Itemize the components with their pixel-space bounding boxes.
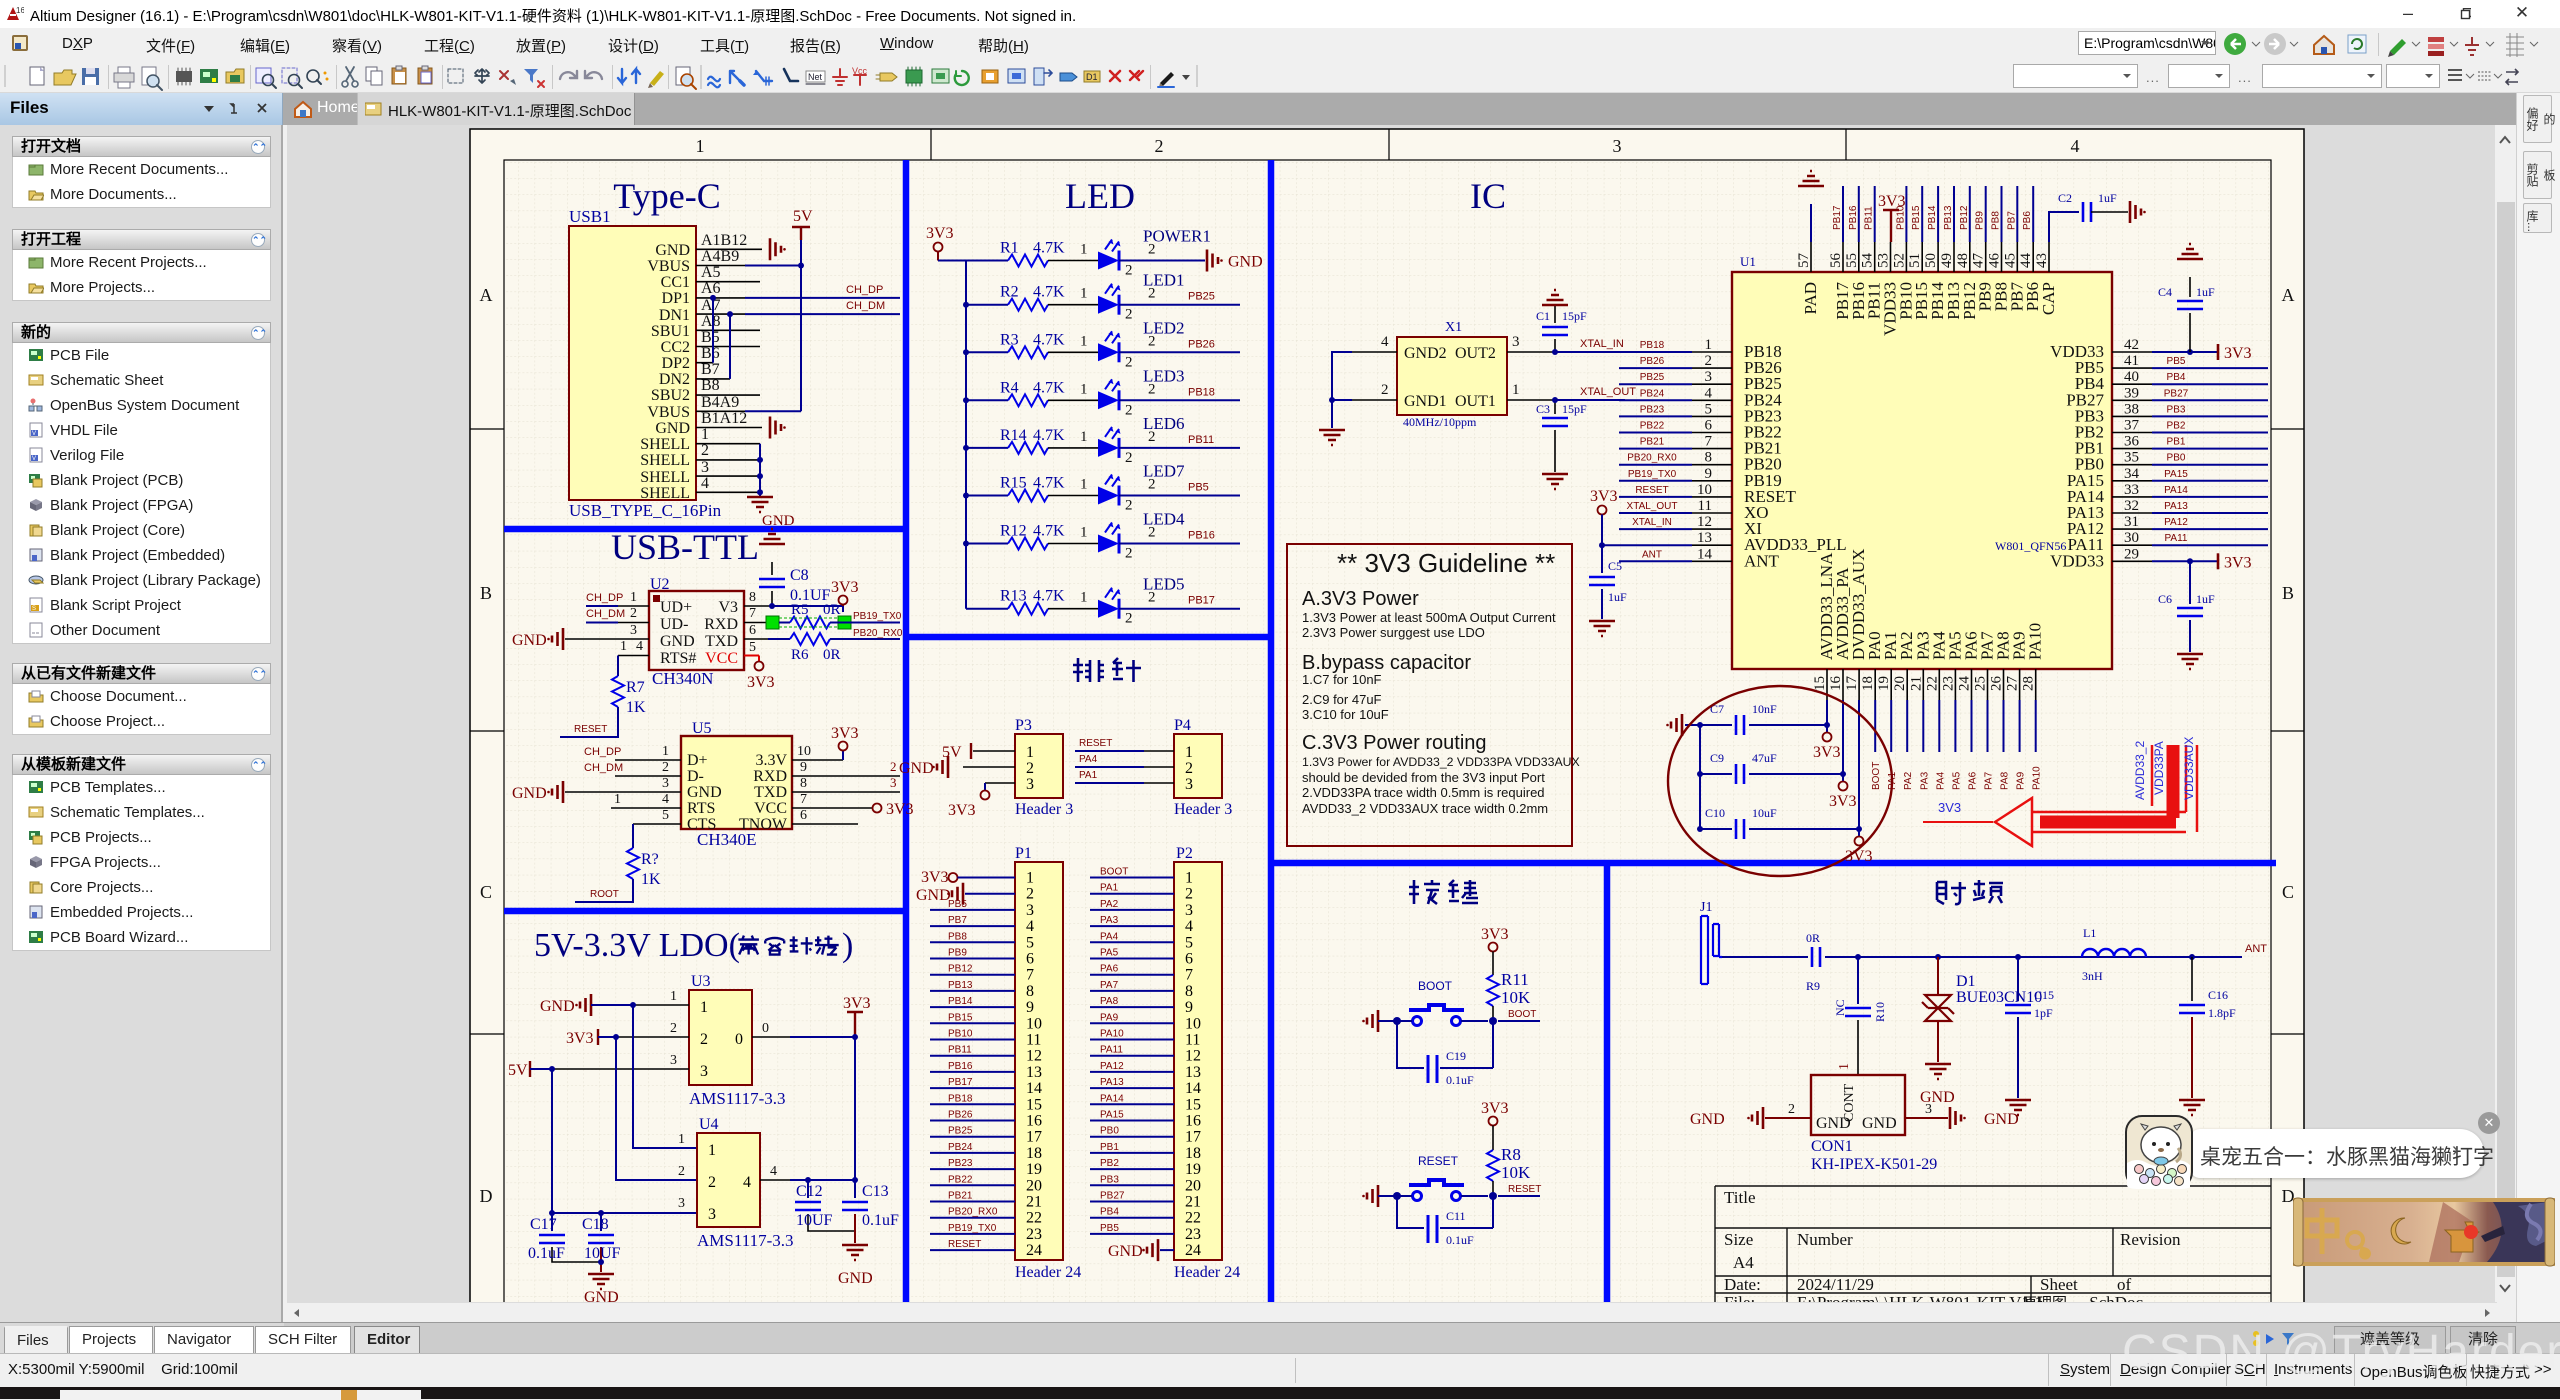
wire XTAL_OUT: [1555, 399, 1625, 401]
svg-text:B6: B6: [701, 345, 720, 362]
svg-text:8: 8: [1185, 983, 1193, 1000]
svg-text:2: 2: [1148, 333, 1156, 349]
wire VDD33 pin29 to 3V3: [2152, 560, 2218, 562]
svg-text:R12: R12: [1000, 523, 1027, 540]
svg-text:9: 9: [800, 760, 807, 775]
svg-text:E:\Program\ \HLK-W801-KIT-V1.1: E:\Program\ \HLK-W801-KIT-V1.1-: [1797, 1293, 2049, 1302]
junction C15: [2015, 954, 2021, 960]
svg-text:PB25: PB25: [948, 1126, 973, 1137]
wire LED to net: [1119, 495, 1240, 497]
thick blue section dividers: [504, 160, 2276, 1309]
svg-text:PB19_TX0: PB19_TX0: [1628, 469, 1677, 480]
svg-text:LED: LED: [1065, 176, 1135, 216]
svg-text:6: 6: [749, 623, 756, 638]
svg-text:12: 12: [1697, 514, 1712, 530]
svg-text:RESET: RESET: [1079, 738, 1112, 749]
svg-text:2: 2: [1125, 546, 1133, 562]
svg-text:17: 17: [1185, 1129, 1201, 1146]
svg-text:): ): [842, 927, 853, 964]
connector CON1 KH-IPEX-K501-29: [1765, 1063, 1948, 1173]
svg-text:0R: 0R: [823, 602, 841, 618]
wire 3V3 vertical bus: [938, 261, 966, 609]
svg-text:PAD: PAD: [1801, 282, 1820, 314]
svg-text:R4: R4: [1000, 379, 1019, 396]
ground earth C8: [759, 529, 785, 544]
svg-text:15: 15: [1185, 1096, 1201, 1113]
ground earth PAD pin57: [1810, 204, 1812, 242]
svg-text:4: 4: [1026, 918, 1034, 935]
svg-text:C15: C15: [2034, 988, 2054, 1002]
wire divider horizontal under USB-TTL: [504, 908, 909, 915]
svg-text:3: 3: [1705, 369, 1713, 385]
svg-text:Revision: Revision: [2120, 1230, 2181, 1249]
svg-text:USB1: USB1: [569, 207, 611, 226]
svg-text:1: 1: [670, 989, 677, 1004]
svg-text:V: V: [32, 431, 36, 437]
svg-text:13: 13: [1026, 1064, 1042, 1081]
power port 5V: [792, 208, 813, 240]
junction C6: [2187, 558, 2193, 564]
svg-text:OUT2: OUT2: [1455, 345, 1496, 362]
annotation red 3V3 routing arrow: [1923, 737, 2197, 846]
D1: [1084, 71, 1100, 82]
svg-text:GND: GND: [1108, 1243, 1143, 1260]
capacitor C15 1pF: [2005, 957, 2054, 1098]
power port 3V3 (RESET pullup): [1481, 1100, 1509, 1126]
svg-text:PA15: PA15: [2164, 469, 2188, 480]
note box 3V3 Guideline: [1287, 544, 1580, 846]
svg-text:49: 49: [1939, 253, 1955, 268]
svg-text:4.7K: 4.7K: [1033, 331, 1065, 348]
svg-text:BOOT: BOOT: [1418, 979, 1453, 993]
capacitor C13 0.1uF: [842, 1180, 899, 1243]
svg-text:S: S: [32, 606, 36, 612]
svg-text:C10: C10: [1705, 806, 1725, 820]
svg-text:UD-: UD-: [660, 616, 688, 633]
svg-text:21: 21: [1908, 676, 1924, 691]
svg-text:13: 13: [1185, 1064, 1201, 1081]
wire U4 out rail: [790, 1037, 855, 1180]
svg-text:SHELL: SHELL: [640, 485, 690, 502]
wire RF main: [1722, 956, 2242, 958]
junction C17 rail: [549, 1210, 555, 1216]
svg-text:3V3: 3V3: [1813, 744, 1841, 761]
svg-text:3V3: 3V3: [948, 802, 976, 819]
svg-text:C19: C19: [1446, 1049, 1466, 1063]
svg-text:7: 7: [1185, 967, 1193, 984]
junction R10: [1855, 954, 1861, 960]
svg-text:3V3: 3V3: [926, 225, 954, 242]
svg-text:PB7: PB7: [948, 915, 967, 926]
svg-text:47uF: 47uF: [1752, 751, 1777, 765]
svg-text:57: 57: [1796, 253, 1812, 269]
svg-text:A6: A6: [701, 280, 721, 297]
svg-text:PA10: PA10: [2026, 623, 2045, 660]
svg-text:PA15: PA15: [1100, 1110, 1124, 1121]
svg-text:PB21: PB21: [1640, 437, 1665, 448]
wire VDD33 pin42 to 3V3: [2152, 351, 2218, 353]
svg-text:1: 1: [708, 1142, 716, 1159]
svg-text:D+: D+: [687, 752, 708, 769]
svg-text:UD+: UD+: [660, 599, 692, 616]
svg-text:1: 1: [1080, 286, 1088, 302]
svg-text:AMS1117-3.3: AMS1117-3.3: [689, 1089, 786, 1108]
svg-text:C9: C9: [1710, 751, 1724, 765]
svg-text:4: 4: [743, 1174, 751, 1191]
svg-text:3nH: 3nH: [2082, 969, 2103, 983]
svg-text:PB14: PB14: [1927, 205, 1938, 230]
ground GND bar (pin B1A12): [770, 417, 786, 439]
svg-text:3: 3: [700, 1063, 708, 1080]
svg-text:L1: L1: [2083, 926, 2096, 940]
connector J1 antenna: [1700, 900, 1722, 984]
svg-text:37: 37: [2124, 418, 2140, 434]
svg-text:GND: GND: [512, 785, 547, 802]
svg-text:10K: 10K: [1501, 1163, 1531, 1182]
svg-text:56: 56: [1828, 253, 1844, 269]
wire divider vertical 3: [1604, 863, 1611, 1309]
LED LED3: [1048, 366, 1185, 418]
svg-text:41: 41: [2124, 353, 2139, 369]
svg-text:GND: GND: [687, 784, 722, 801]
svg-text:USB_TYPE_C_16Pin: USB_TYPE_C_16Pin: [569, 501, 722, 520]
svg-text:23: 23: [1185, 1226, 1201, 1243]
svg-text:C.3V3 Power routing: C.3V3 Power routing: [1302, 732, 1487, 754]
svg-text:PB26: PB26: [1188, 338, 1215, 350]
ground earth C12 C13: [842, 1245, 868, 1260]
switch BOOT: [1409, 979, 1464, 1026]
svg-text:5: 5: [1026, 934, 1034, 951]
svg-text:B: B: [2282, 583, 2294, 603]
svg-text:VCC: VCC: [705, 650, 738, 667]
svg-text:XTAL_IN: XTAL_IN: [1580, 338, 1624, 350]
LED LED1: [1048, 271, 1185, 323]
svg-text:24: 24: [1957, 676, 1973, 692]
IC U1 W801_QFN56: [1732, 254, 2112, 669]
svg-text:3V3: 3V3: [1481, 926, 1509, 943]
LED LED6: [1048, 414, 1185, 466]
svg-text:PB10: PB10: [948, 1029, 973, 1040]
svg-text:1: 1: [1026, 744, 1034, 761]
svg-text:TXD: TXD: [754, 784, 787, 801]
capacitor C2 1uF: [2058, 191, 2128, 222]
svg-text:GND: GND: [838, 1270, 873, 1287]
green ic: [906, 70, 922, 83]
power port 3V3 (U1 pin13): [1590, 488, 1618, 515]
svg-text:J1: J1: [1700, 900, 1712, 915]
capacitor C1 15pF: [1536, 305, 1587, 352]
svg-text:2: 2: [670, 1021, 677, 1036]
ground earth C3: [1542, 474, 1568, 489]
svg-text:47: 47: [1971, 253, 1987, 269]
net label icon: [806, 71, 825, 82]
svg-text:DP2: DP2: [662, 355, 690, 372]
svg-text:PA3: PA3: [1919, 771, 1930, 790]
svg-text:PA14: PA14: [2164, 485, 2188, 496]
svg-text:IC: IC: [1470, 176, 1506, 216]
capacitor C17 0.1uF: [528, 1213, 601, 1262]
svg-text:PB3: PB3: [2167, 404, 2186, 415]
wire divider vertical 1: [903, 160, 910, 1309]
svg-text:PB17: PB17: [1832, 205, 1843, 230]
wire SHELL pins: [759, 444, 761, 497]
svg-text:8: 8: [1705, 450, 1713, 466]
wire 5V down to C17 rail: [552, 1069, 697, 1213]
wire CH_DP U2: [586, 605, 618, 607]
svg-text:PB8: PB8: [948, 931, 967, 942]
svg-text:TNOW: TNOW: [739, 816, 788, 833]
svg-text:3V3: 3V3: [2224, 554, 2252, 571]
svg-text:3V3: 3V3: [566, 1030, 594, 1047]
svg-text:30: 30: [2124, 530, 2139, 546]
component icons: [176, 71, 192, 82]
svg-text:PB11: PB11: [948, 1045, 972, 1056]
svg-text:Type-C: Type-C: [613, 176, 720, 216]
updown / brush: [618, 69, 640, 83]
svg-text:34: 34: [2124, 466, 2140, 482]
svg-text:36: 36: [2124, 434, 2140, 450]
svg-text:21: 21: [1185, 1194, 1201, 1211]
wire divider horizontal under IC: [1268, 860, 2276, 867]
sheet entry: [1034, 68, 1044, 85]
svg-text:SBU1: SBU1: [651, 323, 690, 340]
svg-text:3: 3: [1512, 334, 1520, 350]
svg-text:NC: NC: [1833, 999, 1847, 1016]
svg-text:原理图: 原理图: [2022, 1295, 2067, 1302]
svg-text:PB1: PB1: [2167, 437, 2186, 448]
svg-text:14: 14: [1185, 1080, 1201, 1097]
svg-text:2: 2: [1125, 498, 1133, 514]
svg-text:PB20_RX0: PB20_RX0: [853, 628, 903, 639]
wires U1 top nets: [1843, 186, 2033, 242]
svg-text:R3: R3: [1000, 331, 1019, 348]
resistor R10 NC (cap style): [1833, 957, 1887, 1075]
zoom group: [256, 68, 271, 83]
svg-text:3: 3: [1925, 1102, 1932, 1117]
svg-text:GND: GND: [1690, 1111, 1725, 1128]
ground earth C6: [2177, 654, 2203, 669]
cut/copy/paste: [346, 67, 354, 81]
svg-text:2: 2: [1148, 286, 1156, 302]
svg-text:48: 48: [1955, 253, 1971, 268]
CSDN watermark: [2122, 1325, 2560, 1380]
svg-text:CAP: CAP: [2039, 282, 2058, 315]
svg-text:C12: C12: [796, 1183, 823, 1200]
svg-text:22: 22: [1185, 1210, 1201, 1227]
svg-text:1: 1: [620, 639, 627, 654]
svg-text:3: 3: [662, 776, 669, 791]
svg-text:GND: GND: [1228, 254, 1263, 271]
svg-text:GND1: GND1: [1404, 393, 1447, 410]
svg-text:XTAL_OUT: XTAL_OUT: [1627, 501, 1678, 512]
capacitor C5 1uF: [1589, 545, 1627, 619]
svg-text:B5: B5: [701, 329, 720, 346]
svg-text:PA10: PA10: [1100, 1029, 1124, 1040]
svg-text:A.3V3 Power: A.3V3 Power: [1302, 588, 1419, 610]
svg-text:44: 44: [2018, 253, 2034, 269]
regulator U3 AMS1117-3.3: [552, 973, 790, 1108]
svg-text:45: 45: [2002, 253, 2018, 268]
svg-text:2: 2: [1185, 760, 1193, 777]
svg-text:3V3: 3V3: [1481, 1100, 1509, 1117]
svg-text:P2: P2: [1176, 845, 1193, 862]
svg-text:C11: C11: [1446, 1209, 1466, 1223]
svg-text:3V3: 3V3: [831, 579, 859, 596]
svg-text:CTS: CTS: [687, 816, 716, 833]
svg-text:D-: D-: [687, 768, 704, 785]
svg-text:4: 4: [636, 639, 643, 654]
svg-text:should be devided from the 3V3: should be devided from the 3V3 input Por…: [1302, 770, 1545, 785]
svg-text:PA1: PA1: [1079, 770, 1098, 781]
svg-text:31: 31: [2124, 514, 2139, 530]
junction U3pin1: [630, 1002, 636, 1008]
svg-text:PB3: PB3: [1100, 1174, 1119, 1185]
svg-text:Header 3: Header 3: [1174, 801, 1232, 818]
wire U3 pin1 to U4 pin1: [633, 1005, 697, 1148]
resistor R12 4.7K: [966, 523, 1065, 550]
svg-text:11: 11: [1185, 1032, 1200, 1049]
svg-text:19: 19: [1026, 1161, 1042, 1178]
svg-text:PB4: PB4: [2167, 372, 2186, 383]
resistor R3 4.7K: [966, 331, 1065, 358]
svg-text:R5: R5: [791, 602, 809, 618]
svg-text:20: 20: [1026, 1177, 1042, 1194]
svg-text:R10: R10: [1873, 1002, 1887, 1022]
wire DP2 to DP1: [712, 298, 714, 363]
svg-text:2: 2: [1125, 402, 1133, 418]
svg-text:54: 54: [1860, 253, 1876, 269]
svg-text:14: 14: [1697, 546, 1713, 562]
svg-text:16: 16: [1026, 1113, 1042, 1130]
svg-text:9: 9: [1185, 999, 1193, 1016]
wire divider horizontal under Type-C: [504, 526, 909, 533]
svg-text:TXD: TXD: [705, 633, 738, 650]
svg-text:PA13: PA13: [1100, 1077, 1124, 1088]
svg-text:1K: 1K: [641, 871, 661, 888]
svg-text:1uF: 1uF: [2196, 592, 2215, 606]
svg-text:4.7K: 4.7K: [1033, 379, 1065, 396]
svg-text:CH_DP: CH_DP: [584, 746, 621, 758]
U1 left pins 1-14: [1692, 337, 1847, 570]
svg-text:3: 3: [890, 775, 897, 790]
svg-text:PB2: PB2: [1100, 1158, 1119, 1169]
svg-text:PA12: PA12: [2164, 517, 2188, 528]
svg-text:Net: Net: [808, 72, 823, 82]
svg-text:PB21: PB21: [948, 1191, 973, 1202]
svg-text:50: 50: [1923, 253, 1939, 268]
power port 3V3 (pin42): [2218, 344, 2252, 362]
svg-text:PB6: PB6: [2022, 211, 2033, 230]
svg-text:2: 2: [1788, 1102, 1795, 1117]
svg-text:18: 18: [1026, 1145, 1042, 1162]
svg-text:1: 1: [1080, 525, 1088, 541]
ground GND (P2 pin24): [1108, 1243, 1174, 1260]
svg-text:16: 16: [16, 6, 24, 15]
svg-text:PA9: PA9: [2016, 771, 2027, 790]
wire VBUS to 5V: [745, 240, 801, 411]
svg-text:R9: R9: [1806, 979, 1820, 993]
svg-text:D: D: [2282, 1186, 2295, 1206]
svg-text:DP1: DP1: [662, 290, 690, 307]
wire V3 to 3V3: [770, 606, 843, 612]
svg-text:C18: C18: [582, 1216, 609, 1233]
svg-text:RESET: RESET: [1508, 1184, 1541, 1195]
svg-text:5: 5: [1185, 934, 1193, 951]
power port 3V3 (U3 out): [843, 995, 871, 1037]
svg-text:C4: C4: [2158, 285, 2172, 299]
svg-text:2: 2: [1155, 136, 1164, 156]
svg-text:ANT: ANT: [1642, 549, 1662, 560]
svg-text:RESET: RESET: [948, 1239, 981, 1250]
svg-text:11: 11: [1698, 498, 1712, 514]
connector P2 Header 24: [1174, 845, 1240, 1281]
svg-text:6: 6: [1026, 951, 1034, 968]
junction C8: [769, 603, 775, 609]
svg-text:5V: 5V: [942, 744, 962, 761]
undo/redo: [560, 71, 577, 79]
svg-text:PA8: PA8: [1100, 996, 1119, 1007]
svg-text:4: 4: [1381, 334, 1389, 350]
svg-text:C3: C3: [1536, 402, 1550, 416]
svg-text:GND: GND: [762, 513, 795, 529]
resistor R5 0R: [766, 602, 900, 629]
svg-text:PB13: PB13: [1943, 205, 1954, 230]
svg-text:23: 23: [1026, 1226, 1042, 1243]
svg-text:PA11: PA11: [1100, 1045, 1123, 1056]
svg-text:Header 24: Header 24: [1015, 1264, 1081, 1281]
svg-text:PB26: PB26: [948, 1110, 973, 1121]
svg-text:USB-TTL: USB-TTL: [611, 527, 759, 567]
svg-text:GND: GND: [584, 1289, 619, 1302]
svg-text:V3: V3: [718, 599, 738, 616]
svg-text:CONT: CONT: [1842, 1083, 1857, 1122]
power port 3V3 (P1 pin1): [921, 869, 1015, 886]
svg-text:VBUS: VBUS: [647, 258, 690, 275]
IC U5 CH340E: [565, 720, 900, 849]
svg-text:1: 1: [701, 426, 709, 443]
capacitor C4 1uF: [2158, 277, 2215, 352]
svg-text:OUT1: OUT1: [1455, 393, 1496, 410]
svg-text:D1: D1: [1956, 973, 1976, 990]
svg-text:RESET: RESET: [574, 724, 607, 735]
power port 3V3 (pin29): [2218, 553, 2252, 571]
svg-text:17: 17: [1026, 1129, 1042, 1146]
svg-text:7: 7: [1705, 434, 1713, 450]
svg-text:PB18: PB18: [1188, 386, 1215, 398]
capacitor C19 0.1uF: [1397, 1021, 1493, 1087]
IC U2 CH340N: [565, 576, 770, 688]
wire CAP pin43 to C2: [2049, 212, 2079, 242]
svg-text:4.7K: 4.7K: [1033, 427, 1065, 444]
svg-text:1: 1: [1185, 744, 1193, 761]
svg-text:PB25: PB25: [1640, 372, 1665, 383]
svg-text:22: 22: [1924, 676, 1940, 691]
svg-text:4: 4: [770, 1164, 777, 1179]
junction BOOT left: [1393, 1017, 1401, 1025]
resistor R15 4.7K: [966, 475, 1065, 502]
svg-text:PB4: PB4: [1100, 1207, 1119, 1218]
svg-text:Size: Size: [1724, 1230, 1753, 1249]
svg-text:PB2: PB2: [2167, 421, 2186, 432]
junction pin17: [1856, 826, 1862, 832]
svg-text:3V3: 3V3: [921, 869, 949, 886]
power port 3V3 (P3 pin3): [948, 783, 990, 819]
power port 5V (P3): [942, 743, 971, 761]
svg-text:RXD: RXD: [704, 616, 738, 633]
svg-text:6: 6: [1705, 418, 1713, 434]
svg-text:2: 2: [1705, 353, 1713, 369]
svg-text:8: 8: [800, 776, 807, 791]
